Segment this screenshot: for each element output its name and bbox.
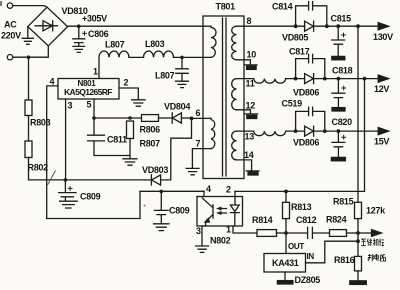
svg-text:C815: C815 bbox=[331, 14, 352, 24]
svg-text:L803: L803 bbox=[145, 39, 165, 49]
arrow standby bbox=[358, 232, 372, 234]
svg-text:KA431: KA431 bbox=[272, 258, 299, 268]
svg-text:130V: 130V bbox=[373, 32, 393, 42]
capacitor C815 bbox=[332, 26, 345, 56]
op-amp U1 : IC N801 KA5Q1265RF bbox=[58, 79, 119, 100]
svg-text:L807: L807 bbox=[155, 71, 175, 81]
node bbox=[160, 190, 164, 194]
svg-text:C814: C814 bbox=[272, 2, 293, 12]
12V rail bbox=[237, 79, 305, 84]
T801 secondary winding 8-10 bbox=[232, 26, 237, 60]
standby control label 至待机控 制电路 bbox=[361, 239, 386, 262]
wire bbox=[13, 46, 49, 57]
T801 primary winding 1-4 bbox=[211, 26, 216, 57]
svg-text:C806: C806 bbox=[88, 29, 109, 39]
capacitor C809 (left) bbox=[59, 180, 78, 208]
svg-text:C811: C811 bbox=[107, 135, 127, 145]
LED bbox=[230, 191, 239, 226]
wire bbox=[29, 158, 152, 180]
diode VD806 bbox=[305, 74, 314, 84]
resistor R803 bbox=[25, 100, 32, 116]
12V feedback bus bbox=[364, 79, 366, 192]
svg-text:KA5Q1265RF: KA5Q1265RF bbox=[64, 87, 112, 97]
svg-text:3: 3 bbox=[196, 226, 201, 236]
pin 5 bbox=[93, 99, 95, 118]
arrow 130V bbox=[378, 23, 388, 30]
pin 7 wire bbox=[186, 149, 211, 175]
pin 12 wire + ground bbox=[237, 110, 258, 114]
capacitor C814 snubber loop bbox=[296, 2, 327, 27]
svg-text:N802: N802 bbox=[210, 236, 231, 246]
ground bbox=[123, 159, 137, 165]
pin 2 bbox=[119, 88, 145, 106]
svg-text:R814: R814 bbox=[252, 215, 273, 225]
inductor L803 bbox=[144, 51, 174, 57]
svg-text:AC: AC bbox=[4, 20, 17, 30]
130V sense bus + resistor R815 bbox=[357, 26, 359, 256]
130V rail bbox=[237, 25, 305, 27]
coupling arrows bbox=[219, 209, 227, 214]
wire R803 chain bbox=[28, 57, 30, 100]
pin 4 bbox=[47, 86, 204, 219]
capacitor C817 snubber loop bbox=[296, 54, 325, 78]
svg-text:1: 1 bbox=[226, 225, 231, 235]
inductor L807 bbox=[99, 51, 129, 79]
node bbox=[27, 55, 31, 59]
pin 2 wire to feedback bus bbox=[235, 190, 365, 192]
T801 secondary winding 13-14 bbox=[232, 131, 237, 160]
+305V rail bbox=[68, 25, 211, 27]
svg-text:4: 4 bbox=[50, 77, 55, 87]
svg-text:C817: C817 bbox=[289, 47, 310, 57]
svg-text:T801: T801 bbox=[216, 2, 236, 12]
optocoupler N802 bbox=[197, 197, 243, 227]
svg-text:7: 7 bbox=[196, 139, 201, 149]
svg-text:OUT: OUT bbox=[288, 242, 304, 251]
IN wire bbox=[306, 241, 359, 263]
resistor R802 bbox=[25, 141, 32, 158]
svg-text:VD806: VD806 bbox=[293, 88, 319, 98]
svg-text:4: 4 bbox=[206, 184, 211, 194]
ground bbox=[284, 272, 286, 281]
svg-text:C820: C820 bbox=[332, 117, 353, 127]
arrow 12V bbox=[378, 75, 388, 82]
resistor R813 bbox=[285, 191, 287, 233]
arrow 15V bbox=[378, 128, 388, 135]
svg-text:C818: C818 bbox=[332, 66, 353, 76]
resistor R816 bbox=[355, 256, 362, 271]
node bbox=[190, 117, 194, 121]
svg-text:12: 12 bbox=[246, 101, 256, 111]
pin 10 wire + ground bbox=[237, 60, 258, 65]
svg-text:C812: C812 bbox=[296, 215, 317, 225]
svg-text:R802: R802 bbox=[28, 163, 49, 173]
svg-text:12V: 12V bbox=[374, 84, 389, 94]
svg-text:3: 3 bbox=[68, 101, 73, 111]
capacitor C811 bbox=[88, 118, 130, 156]
pin 3 ground bbox=[196, 226, 209, 252]
resistor R814 bbox=[257, 230, 277, 237]
node bbox=[92, 116, 96, 120]
resistor R824 bbox=[330, 230, 347, 237]
svg-text:127k: 127k bbox=[366, 206, 386, 216]
bridge rectifier VD810 bbox=[28, 7, 68, 46]
svg-text:C809: C809 bbox=[169, 206, 190, 216]
node bbox=[356, 231, 360, 235]
capacitor C812 bbox=[286, 227, 330, 238]
node bbox=[180, 56, 184, 60]
node bbox=[64, 178, 68, 182]
svg-text:R816: R816 bbox=[334, 255, 355, 265]
svg-text:2: 2 bbox=[124, 78, 129, 88]
wire bbox=[129, 56, 144, 58]
capacitor C818 bbox=[332, 79, 345, 108]
wire bbox=[13, 6, 47, 8]
svg-text:IN: IN bbox=[307, 252, 315, 261]
AC terminal bottom bbox=[7, 55, 12, 60]
15V rail bbox=[237, 131, 305, 136]
wire bbox=[327, 25, 380, 27]
diode VD803 bbox=[150, 175, 152, 185]
pin 1 wire bbox=[233, 226, 257, 233]
shunt regulator KA431 / DZ805 bbox=[285, 233, 287, 254]
capacitor C806 bbox=[73, 26, 85, 52]
svg-text:L807: L807 bbox=[105, 40, 125, 50]
svg-text:1: 1 bbox=[93, 67, 98, 77]
svg-text:R807: R807 bbox=[140, 139, 161, 149]
wire bbox=[94, 117, 142, 119]
pin 14 wire + ground bbox=[237, 160, 260, 171]
svg-text:VD803: VD803 bbox=[142, 165, 168, 175]
svg-text:R815: R815 bbox=[333, 197, 354, 207]
node bbox=[77, 24, 81, 28]
T801 secondary winding 11-12 bbox=[232, 79, 237, 110]
svg-text:VD805: VD805 bbox=[282, 33, 308, 43]
svg-text:VD806: VD806 bbox=[293, 138, 319, 148]
svg-text:R824: R824 bbox=[326, 215, 347, 225]
svg-text:C809: C809 bbox=[80, 192, 101, 202]
svg-text:14: 14 bbox=[244, 150, 254, 160]
svg-text:R806: R806 bbox=[140, 125, 161, 135]
svg-text:6: 6 bbox=[196, 108, 201, 118]
svg-text:R803: R803 bbox=[30, 118, 51, 128]
stray scan marks bbox=[48, 171, 56, 186]
resistor R807 bbox=[127, 121, 134, 139]
svg-text:11: 11 bbox=[246, 79, 255, 89]
svg-text:VD804: VD804 bbox=[164, 102, 190, 112]
node bbox=[128, 116, 132, 120]
svg-text:15V: 15V bbox=[374, 137, 389, 147]
svg-text:8: 8 bbox=[247, 16, 252, 26]
svg-text:C519: C519 bbox=[282, 99, 303, 109]
svg-text:+305V: +305V bbox=[82, 14, 107, 24]
svg-text:DZ805: DZ805 bbox=[295, 275, 321, 285]
diode VD804 bbox=[171, 113, 173, 123]
ground bbox=[22, 27, 33, 45]
svg-text:2: 2 bbox=[226, 185, 231, 195]
capacitor L807 (filter) bbox=[176, 57, 189, 87]
svg-text:13: 13 bbox=[245, 132, 255, 142]
diode VD806 second bbox=[305, 126, 314, 136]
wire pin6 bbox=[192, 117, 212, 119]
wire (feedback net) bbox=[140, 190, 204, 192]
T801 aux winding 6-7 bbox=[211, 118, 215, 148]
resistor R806 bbox=[142, 115, 159, 122]
node bbox=[284, 231, 288, 235]
svg-text:220V: 220V bbox=[1, 31, 21, 41]
node bbox=[356, 239, 360, 243]
AC terminal top bbox=[7, 3, 12, 8]
svg-text:10: 10 bbox=[247, 50, 257, 60]
wire bbox=[174, 56, 212, 58]
pin 4 stub bbox=[203, 191, 205, 196]
transformer T801 bbox=[203, 16, 244, 179]
wire bbox=[28, 116, 30, 142]
capacitor C820 bbox=[332, 131, 345, 157]
capacitor C519 snubber loop bbox=[296, 107, 325, 131]
capacitor C809 (second) bbox=[154, 191, 169, 230]
svg-text:5: 5 bbox=[87, 100, 92, 110]
svg-text:R813: R813 bbox=[291, 202, 312, 212]
diode VD805 bbox=[305, 21, 314, 31]
phototransistor bbox=[202, 198, 213, 226]
pin 3 bbox=[65, 99, 67, 180]
